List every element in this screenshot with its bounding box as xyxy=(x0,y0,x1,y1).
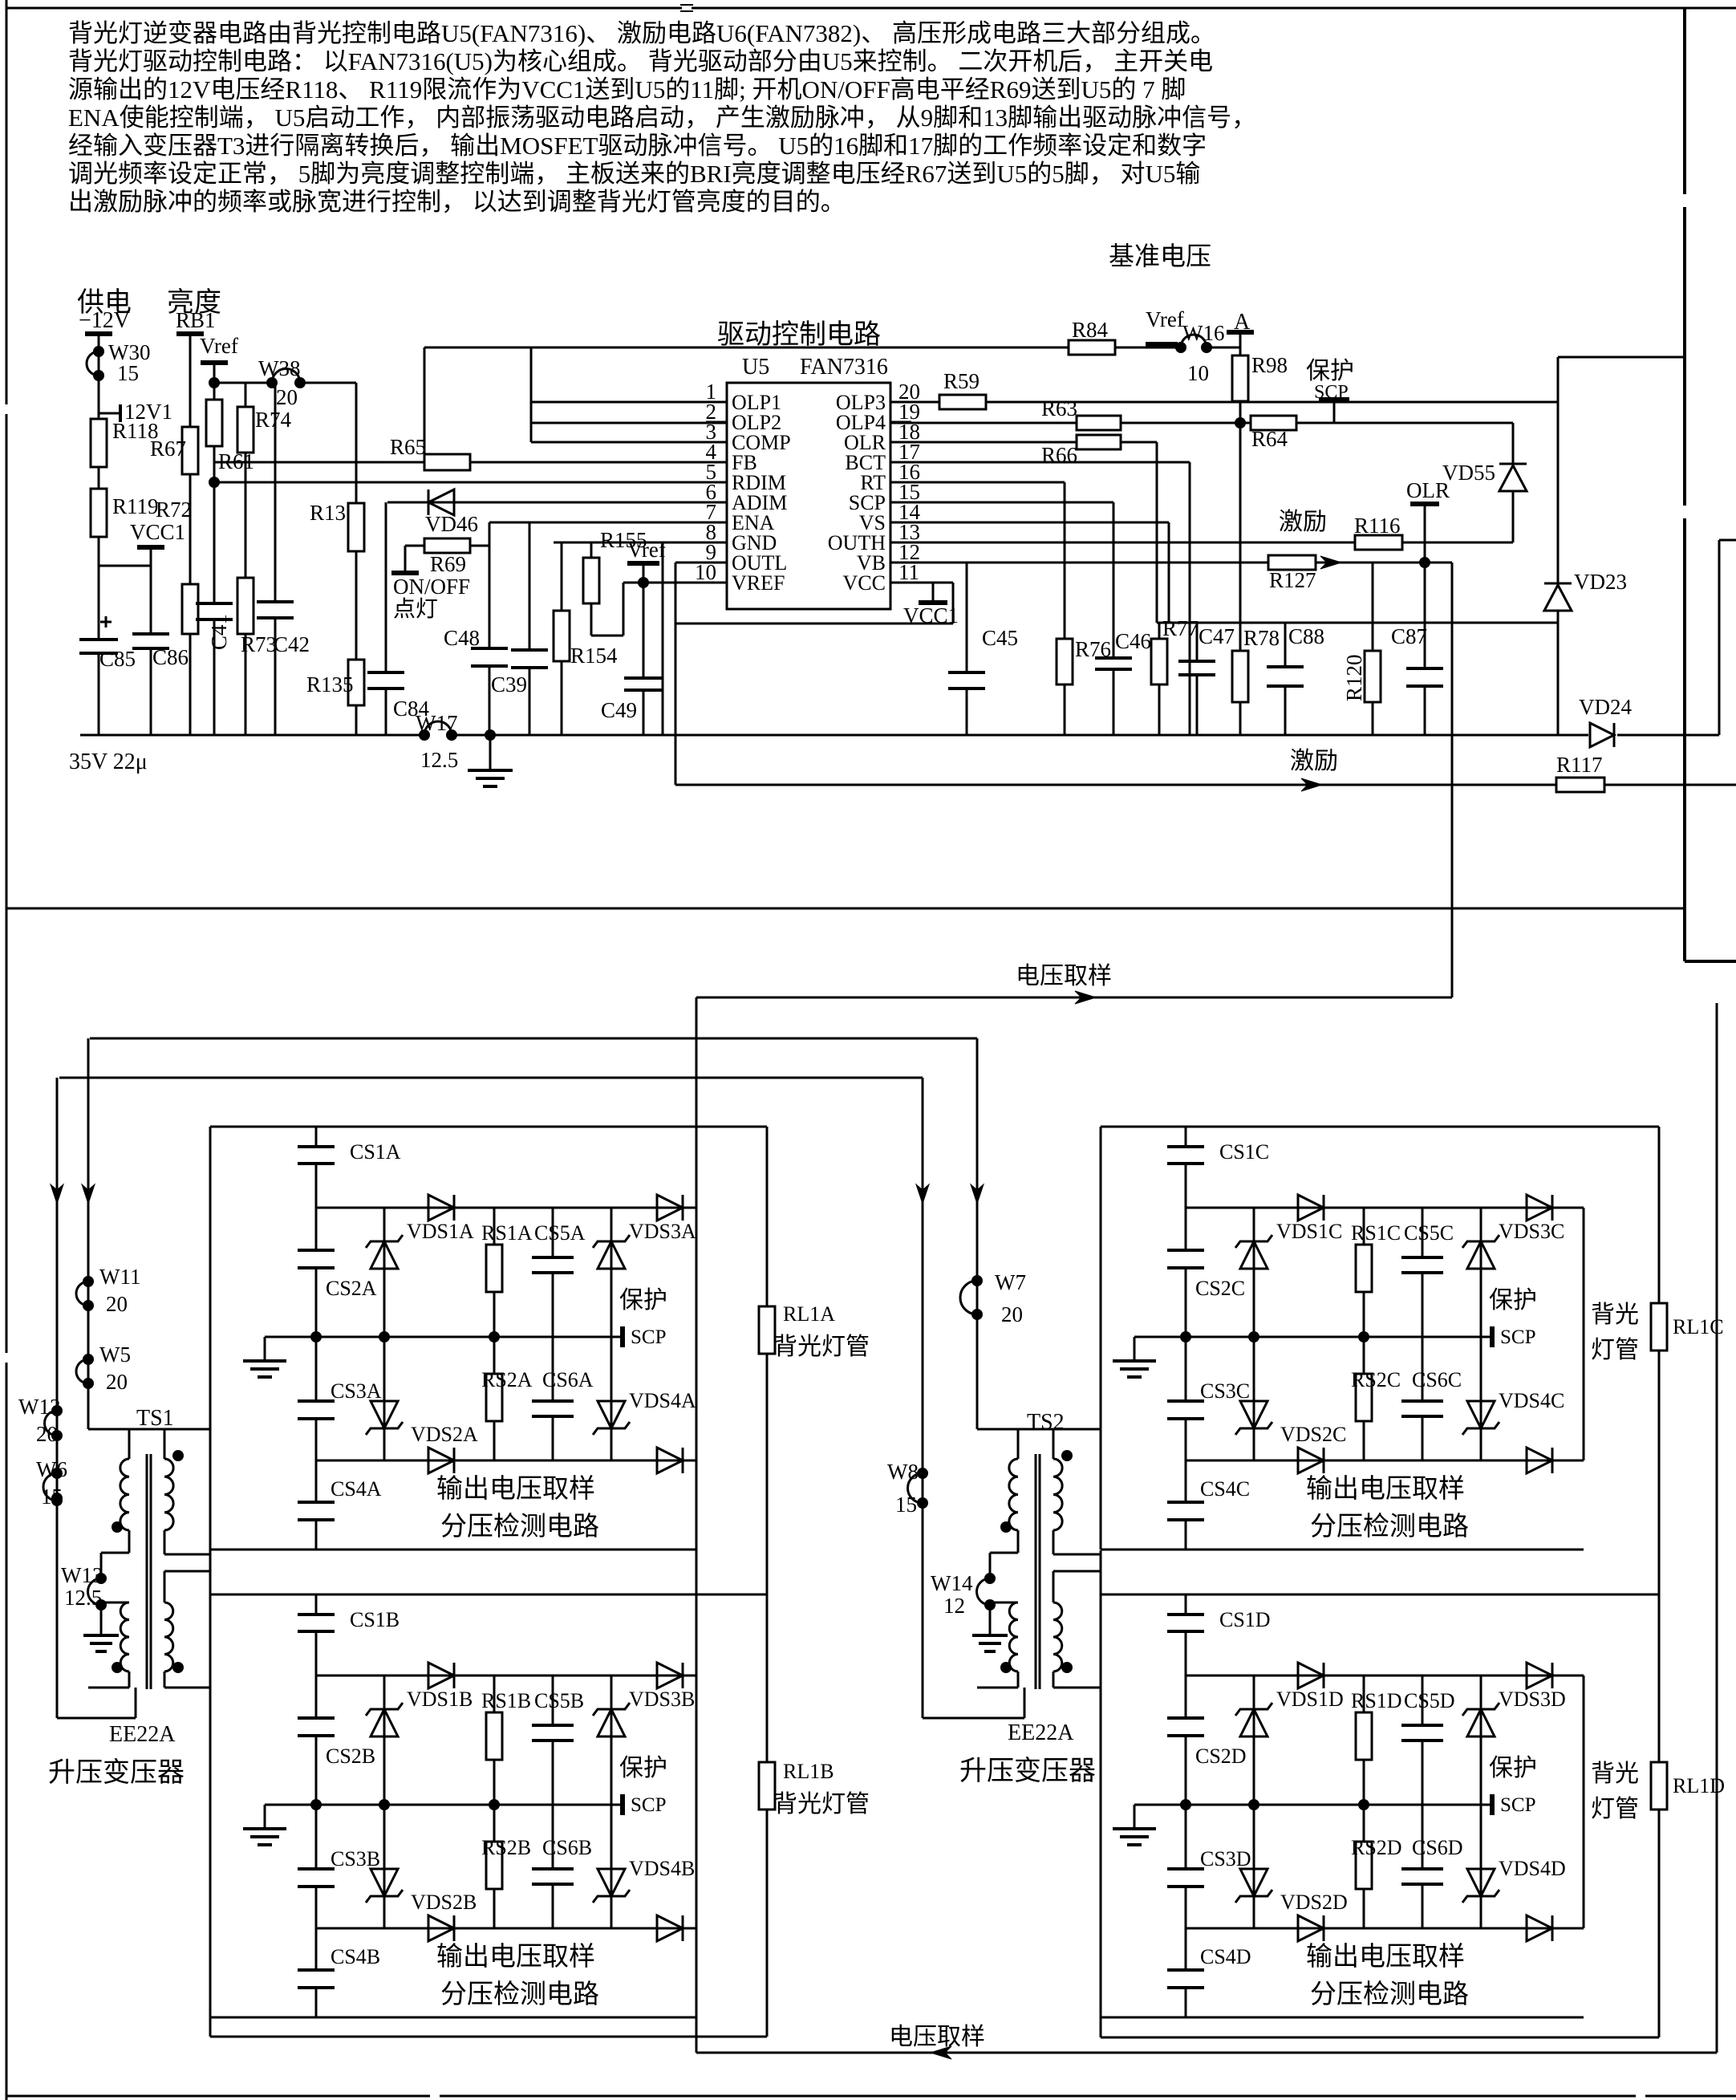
svg-text:VDS1A: VDS1A xyxy=(407,1220,474,1243)
svg-text:W14: W14 xyxy=(931,1571,973,1595)
svg-text:VDS2A: VDS2A xyxy=(411,1423,478,1446)
svg-text:Vref: Vref xyxy=(1146,307,1184,331)
svg-text:VCC1: VCC1 xyxy=(130,520,185,544)
svg-text:C48: C48 xyxy=(444,626,480,650)
svg-text:Vref: Vref xyxy=(627,538,666,562)
svg-text:VDS3C: VDS3C xyxy=(1499,1220,1564,1243)
svg-text:RL1D: RL1D xyxy=(1673,1774,1725,1797)
svg-text:R13: R13 xyxy=(310,501,346,525)
svg-text:R84: R84 xyxy=(1072,318,1109,342)
svg-text:输出电压取样: 输出电压取样 xyxy=(436,1474,595,1504)
svg-text:C87: C87 xyxy=(1391,624,1427,648)
svg-text:背光灯逆变器电路由背光控制电路U5(FAN7316)、 激励: 背光灯逆变器电路由背光控制电路U5(FAN7316)、 激励电路U6(FAN73… xyxy=(68,19,1215,47)
svg-text:R116: R116 xyxy=(1354,514,1401,538)
svg-text:CS2A: CS2A xyxy=(326,1277,377,1300)
svg-text:RS2D: RS2D xyxy=(1351,1836,1402,1859)
svg-text:CS4C: CS4C xyxy=(1200,1477,1250,1501)
svg-text:15: 15 xyxy=(895,1493,917,1517)
svg-text:C41: C41 xyxy=(207,614,231,650)
svg-text:RS1C: RS1C xyxy=(1351,1221,1401,1245)
svg-text:EE22A: EE22A xyxy=(109,1722,176,1747)
svg-text:W7: W7 xyxy=(995,1270,1026,1294)
svg-text:背光灯驱动控制电路： 以FAN7316(U5)为核心组成。: 背光灯驱动控制电路： 以FAN7316(U5)为核心组成。 背光驱动部分由U5来… xyxy=(68,47,1213,75)
svg-text:R77: R77 xyxy=(1162,616,1199,640)
svg-text:保护: 保护 xyxy=(1489,1287,1537,1314)
svg-text:RS1B: RS1B xyxy=(481,1689,531,1712)
svg-text:CS4D: CS4D xyxy=(1200,1945,1251,1968)
svg-text:R119: R119 xyxy=(112,494,159,518)
svg-text:CS6D: CS6D xyxy=(1412,1836,1463,1859)
svg-text:灯管: 灯管 xyxy=(1591,1796,1639,1822)
svg-text:VDS2D: VDS2D xyxy=(1280,1891,1348,1914)
svg-text:出激励脉冲的频率或脉宽进行控制， 以达到调整背光灯管亮度的目: 出激励脉冲的频率或脉宽进行控制， 以达到调整背光灯管亮度的目的。 xyxy=(68,188,846,216)
svg-text:20: 20 xyxy=(36,1422,58,1446)
svg-text:SCP: SCP xyxy=(1314,382,1349,403)
svg-text:SCP: SCP xyxy=(1500,1794,1535,1816)
svg-text:FAN7316: FAN7316 xyxy=(800,355,888,380)
svg-text:12.5: 12.5 xyxy=(420,748,458,772)
svg-text:R120: R120 xyxy=(1342,654,1366,701)
svg-text:VDS4D: VDS4D xyxy=(1499,1857,1566,1880)
svg-text:背光灯管: 背光灯管 xyxy=(773,1334,870,1360)
svg-text:经输入变压器T3进行隔离转换后， 输出MOSFET驱动脉冲信: 经输入变压器T3进行隔离转换后， 输出MOSFET驱动脉冲信号。 U5的16脚和… xyxy=(68,132,1207,160)
svg-text:15: 15 xyxy=(117,361,139,385)
svg-text:C85: C85 xyxy=(99,647,136,671)
svg-text:VDS4C: VDS4C xyxy=(1499,1389,1564,1412)
svg-text:分压检测电路: 分压检测电路 xyxy=(440,1980,599,2009)
svg-text:升压变压器: 升压变压器 xyxy=(959,1756,1096,1786)
svg-text:CS1B: CS1B xyxy=(350,1608,400,1631)
svg-text:ENA使能控制端， U5启动工作， 内部振荡驱动电路启动，: ENA使能控制端， U5启动工作， 内部振荡驱动电路启动， 产生激励脉冲， 从9… xyxy=(68,104,1256,132)
svg-text:背光: 背光 xyxy=(1591,1302,1639,1328)
svg-text:分压检测电路: 分压检测电路 xyxy=(440,1512,599,1541)
svg-text:R72: R72 xyxy=(156,498,192,522)
svg-text:20: 20 xyxy=(106,1292,128,1316)
svg-text:10: 10 xyxy=(695,560,716,584)
svg-text:SCP: SCP xyxy=(631,1794,666,1816)
svg-text:W11: W11 xyxy=(99,1265,140,1289)
svg-text:CS1C: CS1C xyxy=(1219,1140,1269,1164)
svg-text:TS1: TS1 xyxy=(136,1406,174,1431)
svg-text:VREF: VREF xyxy=(732,571,785,595)
svg-text:激励: 激励 xyxy=(1279,509,1327,535)
svg-text:OLR: OLR xyxy=(1406,478,1450,502)
svg-text:保护: 保护 xyxy=(619,1755,667,1781)
svg-text:VD46: VD46 xyxy=(425,512,478,536)
svg-text:12: 12 xyxy=(943,1594,965,1618)
svg-text:VDS1C: VDS1C xyxy=(1276,1220,1342,1243)
svg-text:R74: R74 xyxy=(255,408,292,432)
svg-text:W38: W38 xyxy=(258,356,300,380)
svg-text:CS6C: CS6C xyxy=(1412,1368,1462,1391)
svg-text:VDS3B: VDS3B xyxy=(629,1688,695,1711)
svg-text:分压检测电路: 分压检测电路 xyxy=(1310,1980,1469,2009)
svg-text:VDS2B: VDS2B xyxy=(411,1891,477,1914)
svg-text:CS4B: CS4B xyxy=(331,1945,380,1968)
svg-text:源输出的12V电压经R118、 R119限流作为VCC1送到: 源输出的12V电压经R118、 R119限流作为VCC1送到U5的11脚; 开机… xyxy=(68,75,1186,104)
svg-text:W13: W13 xyxy=(61,1563,103,1587)
svg-text:W6: W6 xyxy=(36,1457,67,1481)
svg-text:35V 22μ: 35V 22μ xyxy=(69,749,148,774)
svg-text:保护: 保护 xyxy=(1489,1755,1537,1781)
svg-text:基准电压: 基准电压 xyxy=(1109,242,1211,270)
svg-text:VD55: VD55 xyxy=(1442,461,1495,485)
svg-text:输出电压取样: 输出电压取样 xyxy=(436,1942,595,1972)
svg-text:电压取样: 电压取样 xyxy=(889,2024,985,2050)
svg-text:CS5C: CS5C xyxy=(1404,1221,1454,1245)
svg-text:R63: R63 xyxy=(1041,396,1077,420)
svg-text:W5: W5 xyxy=(99,1342,131,1367)
svg-text:ON/OFF: ON/OFF xyxy=(393,575,470,599)
svg-text:升压变压器: 升压变压器 xyxy=(48,1757,185,1788)
svg-text:R154: R154 xyxy=(570,644,618,668)
svg-text:W12: W12 xyxy=(18,1395,60,1419)
svg-text:U5: U5 xyxy=(742,355,769,380)
svg-text:RS1A: RS1A xyxy=(481,1221,533,1245)
svg-text:VDS1B: VDS1B xyxy=(407,1688,473,1711)
svg-text:电压取样: 电压取样 xyxy=(1016,963,1112,989)
svg-text:VD24: VD24 xyxy=(1579,695,1632,719)
svg-text:20: 20 xyxy=(1001,1302,1023,1326)
svg-text:VD23: VD23 xyxy=(1574,570,1627,594)
svg-text:R65: R65 xyxy=(390,435,426,459)
svg-text:12.5: 12.5 xyxy=(64,1586,102,1610)
svg-text:R127: R127 xyxy=(1269,568,1316,592)
svg-text:VCC1: VCC1 xyxy=(903,603,959,628)
svg-text:CS2D: CS2D xyxy=(1195,1745,1247,1768)
svg-text:CS5D: CS5D xyxy=(1404,1689,1455,1712)
svg-text:R64: R64 xyxy=(1251,427,1288,451)
svg-text:VCC: VCC xyxy=(843,571,886,595)
svg-text:W17: W17 xyxy=(416,711,457,735)
svg-text:CS5A: CS5A xyxy=(534,1221,586,1245)
svg-text:−12V: −12V xyxy=(79,308,130,333)
svg-text:R78: R78 xyxy=(1243,626,1280,650)
svg-text:C47: C47 xyxy=(1199,624,1235,648)
svg-text:VDS1D: VDS1D xyxy=(1276,1688,1344,1711)
svg-text:RL1C: RL1C xyxy=(1673,1315,1724,1338)
svg-text:CS6A: CS6A xyxy=(542,1368,594,1391)
svg-text:保护: 保护 xyxy=(1306,358,1354,384)
svg-text:TS2: TS2 xyxy=(1027,1410,1065,1435)
svg-text:保护: 保护 xyxy=(619,1287,667,1314)
svg-text:C88: C88 xyxy=(1288,624,1324,648)
svg-text:C86: C86 xyxy=(152,645,189,669)
svg-text:R135: R135 xyxy=(306,672,354,697)
svg-text:CS4A: CS4A xyxy=(331,1477,382,1501)
svg-text:20: 20 xyxy=(106,1370,128,1394)
svg-text:EE22A: EE22A xyxy=(1008,1720,1074,1745)
svg-text:CS1D: CS1D xyxy=(1219,1608,1271,1631)
svg-text:C42: C42 xyxy=(274,632,310,656)
svg-text:C49: C49 xyxy=(601,698,637,722)
svg-text:R69: R69 xyxy=(430,552,466,576)
svg-text:背光: 背光 xyxy=(1591,1761,1639,1787)
svg-text:分压检测电路: 分压检测电路 xyxy=(1310,1512,1469,1541)
svg-text:C45: C45 xyxy=(982,626,1018,650)
svg-text:RL1A: RL1A xyxy=(783,1302,835,1326)
svg-text:RS1D: RS1D xyxy=(1351,1689,1402,1712)
svg-text:C46: C46 xyxy=(1115,629,1151,653)
svg-text:输出电压取样: 输出电压取样 xyxy=(1306,1474,1465,1504)
svg-text:CS3C: CS3C xyxy=(1200,1379,1250,1403)
svg-text:CS3D: CS3D xyxy=(1200,1847,1251,1871)
svg-text:RB1: RB1 xyxy=(176,308,216,332)
svg-text:CS3B: CS3B xyxy=(331,1847,380,1871)
svg-text:VDS2C: VDS2C xyxy=(1280,1423,1346,1446)
svg-text:CS6B: CS6B xyxy=(542,1836,592,1859)
svg-text:SCP: SCP xyxy=(631,1326,666,1348)
svg-text:RL1B: RL1B xyxy=(783,1760,834,1783)
svg-text:CS2B: CS2B xyxy=(326,1745,375,1768)
svg-text:RS2C: RS2C xyxy=(1351,1368,1401,1391)
svg-text:20: 20 xyxy=(276,385,298,409)
svg-text:VDS3A: VDS3A xyxy=(629,1220,696,1243)
svg-text:CS2C: CS2C xyxy=(1195,1277,1245,1300)
svg-text:R67: R67 xyxy=(150,437,186,461)
svg-text:CS5B: CS5B xyxy=(534,1689,584,1712)
svg-text:VDS4A: VDS4A xyxy=(629,1389,696,1412)
svg-text:Vref: Vref xyxy=(200,334,238,358)
svg-text:调光频率设定正常， 5脚为亮度调整控制端， 主板送来的BRI: 调光频率设定正常， 5脚为亮度调整控制端， 主板送来的BRI亮度调整电压经R67… xyxy=(68,160,1200,188)
svg-text:SCP: SCP xyxy=(1500,1326,1535,1348)
svg-text:VDS4B: VDS4B xyxy=(629,1857,695,1880)
svg-text:W16: W16 xyxy=(1182,321,1224,345)
svg-text:10: 10 xyxy=(1187,361,1209,385)
svg-text:灯管: 灯管 xyxy=(1591,1337,1639,1363)
svg-text:RS2B: RS2B xyxy=(481,1836,531,1859)
svg-text:点灯: 点灯 xyxy=(393,596,438,622)
svg-text:R59: R59 xyxy=(943,369,980,393)
svg-text:VDS3D: VDS3D xyxy=(1499,1688,1566,1711)
svg-text:C39: C39 xyxy=(491,672,527,697)
svg-text:输出电压取样: 输出电压取样 xyxy=(1306,1942,1465,1972)
svg-text:CS3A: CS3A xyxy=(331,1379,382,1403)
svg-text:R117: R117 xyxy=(1556,753,1603,777)
svg-text:R98: R98 xyxy=(1251,353,1288,377)
svg-text:驱动控制电路: 驱动控制电路 xyxy=(717,319,881,350)
svg-text:CS1A: CS1A xyxy=(350,1140,401,1164)
svg-text:RS2A: RS2A xyxy=(481,1368,533,1391)
svg-text:W8: W8 xyxy=(887,1460,919,1484)
svg-text:激励: 激励 xyxy=(1290,748,1338,774)
svg-text:背光灯管: 背光灯管 xyxy=(773,1791,870,1818)
